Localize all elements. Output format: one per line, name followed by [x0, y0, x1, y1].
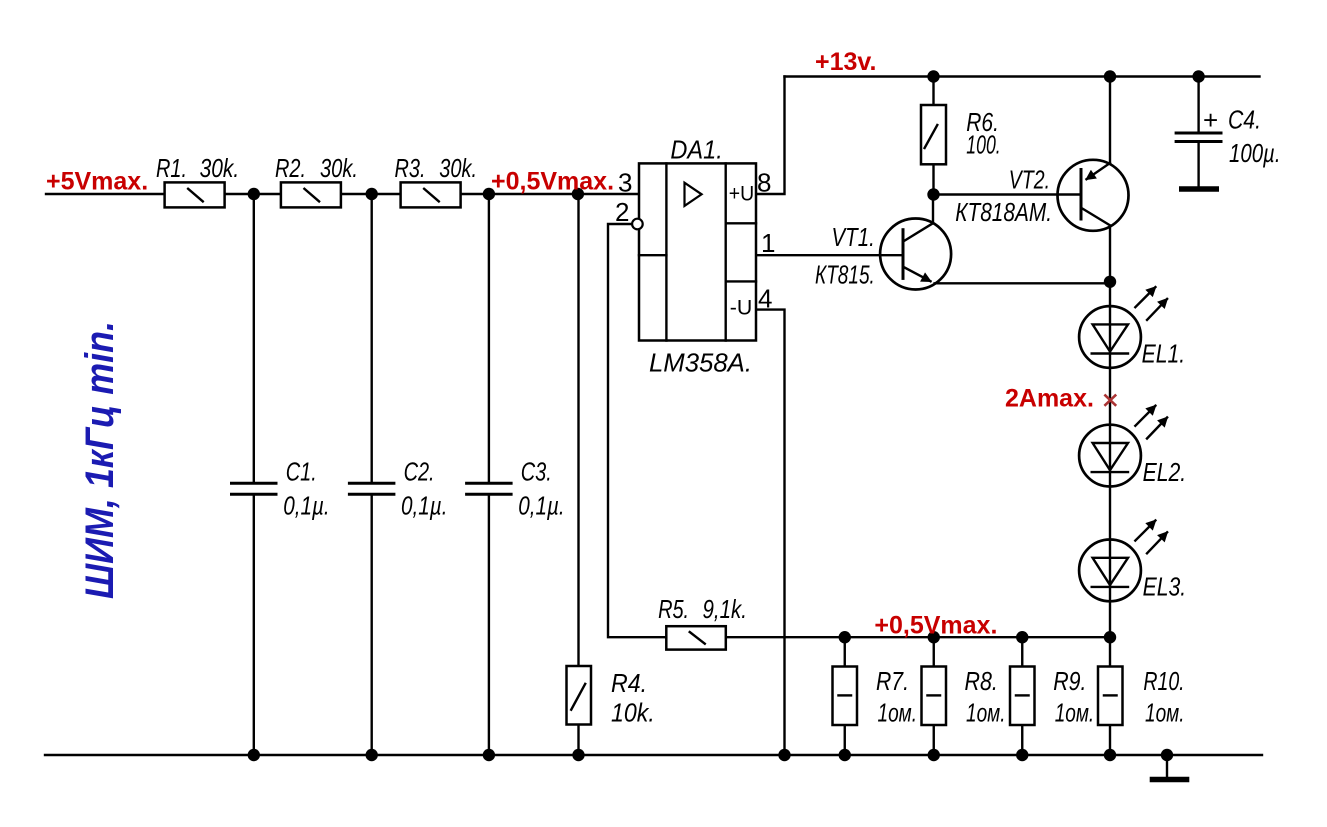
svg-text:C2.: C2. — [404, 457, 435, 487]
ground symbol bottom right — [1150, 777, 1190, 783]
wire VT1 emitter to LED column — [935, 282, 1110, 284]
wire pin2 feedback left segment — [608, 224, 666, 637]
wire ground stub bottom right — [1166, 755, 1168, 778]
node junction rail pin4 — [778, 749, 790, 761]
svg-text:+0,5Vmax.: +0,5Vmax. — [491, 168, 614, 196]
svg-text:9,1k.: 9,1k. — [703, 594, 747, 624]
resistor R7 — [833, 667, 858, 726]
svg-text:+: + — [1203, 105, 1218, 135]
wire R9 branch — [1021, 637, 1023, 755]
svg-text:0,1µ.: 0,1µ. — [283, 491, 330, 521]
resistor R4 — [567, 666, 592, 725]
label C1 value — [283, 457, 330, 521]
wire C2 branch — [371, 194, 373, 482]
node junction VT1 emitter-VT2 collector — [1104, 276, 1116, 288]
transistor VT2 — [1058, 160, 1129, 231]
capacitor C4 — [1175, 105, 1223, 142]
svg-text:+5Vmax.: +5Vmax. — [46, 168, 148, 196]
label C4 value — [1228, 105, 1281, 169]
node junction rail R10 — [1104, 749, 1116, 761]
node junction R9 top — [1016, 631, 1028, 643]
svg-text:EL3.: EL3. — [1143, 572, 1187, 602]
resistor R3 — [401, 182, 461, 207]
node junction R2-R3 C2 — [366, 188, 378, 200]
LED EL3 — [1079, 521, 1167, 602]
svg-text:4: 4 — [758, 284, 772, 314]
label R6 value — [966, 107, 1000, 160]
label C2 value — [401, 457, 448, 521]
wire main input line +5V to pin 3 — [46, 193, 639, 195]
LED EL1 — [1079, 287, 1167, 368]
svg-text:100µ.: 100µ. — [1229, 138, 1281, 168]
wire R6 bottom to node — [932, 164, 934, 194]
wire C1 branch — [253, 194, 255, 482]
node junction R1-R2 C1 — [248, 188, 260, 200]
svg-text:EL2.: EL2. — [1143, 457, 1187, 487]
resistor R6 — [921, 105, 946, 164]
svg-text:LM358A.: LM358A. — [649, 348, 752, 378]
node junction +13v R6 — [927, 70, 939, 82]
svg-text:КТ815.: КТ815. — [815, 260, 875, 290]
wire pin 1 to VT1 base — [756, 254, 903, 256]
node junction R8 top — [928, 631, 940, 643]
resistor R2 — [281, 182, 341, 207]
svg-text:1: 1 — [761, 228, 775, 258]
svg-text:1ом.: 1ом. — [878, 698, 918, 728]
current measuring point x mark — [1104, 395, 1116, 406]
ground C4 — [1179, 186, 1219, 192]
svg-text:КТ818АМ.: КТ818АМ. — [955, 197, 1052, 227]
capacitor C1 — [230, 483, 278, 494]
wire bottom ground rail — [45, 754, 1262, 756]
node junction +13v C4 — [1192, 70, 1204, 82]
wire pin 8 to +13v rail — [756, 77, 785, 195]
wire rail to VT2 emitter — [1109, 77, 1111, 164]
svg-text:30k.: 30k. — [320, 153, 358, 183]
svg-text:3: 3 — [618, 168, 632, 198]
svg-text:1ом.: 1ом. — [966, 698, 1006, 728]
wire R4 branch — [577, 194, 579, 755]
resistor R5 — [666, 626, 726, 649]
node junction R6-VT1 collector-VT2 base — [927, 188, 939, 200]
svg-text:R3.: R3. — [395, 153, 426, 183]
svg-text:+0,5Vmax.: +0,5Vmax. — [874, 612, 997, 640]
wire R7 branch — [844, 637, 846, 755]
label R2 value — [275, 153, 358, 183]
node junction +0,5V R4 — [572, 188, 584, 200]
resistor R1 — [165, 182, 225, 207]
wire node to VT1 collector — [932, 195, 934, 224]
svg-text:-U: -U — [730, 297, 753, 320]
svg-text:R10.: R10. — [1143, 666, 1184, 696]
label R9 value — [1053, 666, 1094, 728]
label VT2 — [955, 165, 1052, 228]
node junction rail C3 — [483, 749, 495, 761]
svg-text:10k.: 10k. — [611, 698, 655, 728]
capacitor C3 — [465, 483, 512, 494]
wire C4 top — [1197, 77, 1199, 132]
pin 2 inversion circle — [632, 219, 643, 230]
svg-text:C1.: C1. — [286, 457, 317, 487]
svg-text:C3.: C3. — [521, 457, 552, 487]
svg-text:30k.: 30k. — [200, 153, 240, 183]
node junction rail R7 — [839, 749, 851, 761]
transistor VT1 — [880, 219, 951, 290]
svg-text:R2.: R2. — [275, 153, 306, 183]
svg-text:R8.: R8. — [965, 666, 998, 696]
svg-text:0,1µ.: 0,1µ. — [401, 491, 448, 521]
svg-text:R1.: R1. — [156, 153, 187, 183]
label C3 value — [518, 457, 565, 521]
wire +13v top rail — [785, 75, 1260, 77]
wire VT2 base — [934, 193, 1082, 195]
wire feedback R5 to sense node — [666, 636, 1110, 638]
node junction R3 out C3 — [483, 188, 495, 200]
node junction rail C2 — [366, 749, 378, 761]
wire VT2 collector down through LEDs to ground rail — [1109, 226, 1111, 755]
LED EL2 — [1079, 406, 1167, 487]
wire R8 branch — [933, 637, 935, 755]
svg-text:100.: 100. — [966, 130, 1000, 160]
wire C4 bottom — [1197, 143, 1199, 187]
svg-text:C4.: C4. — [1228, 105, 1261, 135]
svg-text:1ом.: 1ом. — [1055, 698, 1095, 728]
svg-text:R4.: R4. — [611, 668, 647, 698]
node junction rail R8 — [928, 749, 940, 761]
svg-text:+U: +U — [729, 182, 754, 205]
svg-text:2: 2 — [615, 197, 629, 227]
svg-text:R7.: R7. — [876, 666, 909, 696]
label R7 value — [876, 666, 917, 728]
svg-text:VT1.: VT1. — [832, 222, 875, 252]
label VT1 — [815, 222, 875, 290]
node junction LED bottom R10 — [1104, 631, 1116, 643]
resistor R8 — [922, 667, 947, 726]
svg-text:+13v.: +13v. — [815, 48, 876, 76]
wire C3 branch — [488, 194, 490, 482]
svg-text:2Amax.: 2Amax. — [1005, 385, 1094, 413]
svg-text:1ом.: 1ом. — [1145, 698, 1185, 728]
svg-text:R5.: R5. — [658, 594, 689, 624]
svg-text:VT2.: VT2. — [1009, 165, 1050, 195]
resistor R10 — [1098, 667, 1123, 726]
node junction rail ground — [1161, 749, 1173, 761]
label R10 value — [1143, 666, 1184, 728]
svg-text:ШИМ, 1кГц min.: ШИМ, 1кГц min. — [78, 321, 122, 599]
label R5 value — [658, 594, 747, 624]
label R8 value — [965, 666, 1006, 728]
svg-text:30k.: 30k. — [439, 153, 477, 183]
svg-text:0,1µ.: 0,1µ. — [518, 491, 565, 521]
node junction +13v VT2 — [1104, 70, 1116, 82]
svg-text:8: 8 — [757, 168, 771, 198]
svg-text:DA1.: DA1. — [670, 134, 722, 164]
label R3 value — [395, 153, 478, 183]
op-amp DA1 — [639, 163, 756, 340]
svg-text:R9.: R9. — [1053, 666, 1086, 696]
label R4 value — [611, 668, 655, 728]
node junction rail C1 — [248, 749, 260, 761]
svg-text:EL1.: EL1. — [1142, 339, 1186, 369]
wire R6 top — [932, 77, 934, 106]
capacitor C2 — [348, 483, 396, 494]
resistor R9 — [1010, 667, 1035, 726]
node junction R7 top — [839, 631, 851, 643]
node junction rail R9 — [1016, 749, 1028, 761]
wire pin 4 to ground — [756, 310, 785, 755]
node junction rail R4 — [572, 749, 584, 761]
label R1 value — [156, 153, 239, 183]
